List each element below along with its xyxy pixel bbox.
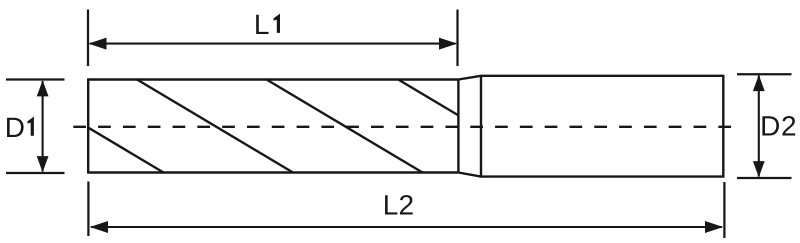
flute end face line bbox=[457, 80, 459, 173]
L1 extension line left bbox=[87, 10, 89, 67]
L2 extension line left bbox=[87, 182, 89, 237]
label L1 bbox=[254, 9, 280, 40]
flute helix line 1 (clipped at left edge) bbox=[88, 128, 163, 173]
flute body outline bbox=[88, 78, 458, 173]
D1 extension tick top bbox=[6, 78, 65, 80]
L2 arrowhead right bbox=[705, 221, 723, 233]
D2 arrowhead up bbox=[753, 75, 765, 91]
D2 extension tick top bbox=[737, 73, 792, 75]
L1 extension line right bbox=[456, 10, 458, 67]
L2 dimension line bbox=[91, 226, 722, 228]
shank body outline bbox=[481, 75, 723, 178]
L2 extension line right bbox=[723, 182, 725, 238]
flute helix line 2 bbox=[137, 80, 293, 173]
D1 arrowhead up bbox=[37, 80, 49, 96]
label L2 bbox=[383, 190, 415, 221]
D2 arrowhead down bbox=[753, 161, 765, 177]
L1 arrowhead left bbox=[88, 38, 106, 50]
svg-text:D: D bbox=[5, 112, 25, 143]
neck transition top bbox=[458, 76, 481, 80]
L2 arrowhead left bbox=[90, 221, 108, 233]
label D1 bbox=[5, 112, 34, 143]
D2 dimension line bbox=[758, 76, 760, 177]
centerline dashed axis bbox=[73, 126, 731, 128]
L1 arrowhead right bbox=[439, 38, 457, 50]
D1 arrowhead down bbox=[37, 156, 49, 172]
D2 extension tick bottom bbox=[737, 177, 792, 179]
flute helix line 4 (clipped at flute end) bbox=[398, 80, 458, 116]
svg-text:L: L bbox=[254, 9, 270, 40]
D1 dimension line bbox=[42, 81, 44, 172]
L1 dimension line bbox=[90, 43, 456, 45]
flute helix line 3 bbox=[267, 80, 423, 173]
label D2 bbox=[760, 111, 797, 142]
D1 extension tick bottom bbox=[6, 172, 65, 174]
svg-text:L2: L2 bbox=[383, 190, 415, 221]
svg-text:D2: D2 bbox=[760, 111, 797, 142]
neck transition bottom bbox=[458, 173, 481, 177]
